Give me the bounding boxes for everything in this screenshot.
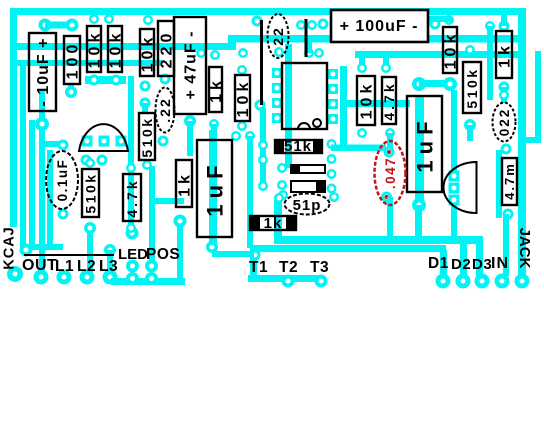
node R13 top pad (381, 56, 391, 73)
wire R11 bottom trace (177, 221, 183, 280)
svg-text:4.7k: 4.7k (124, 178, 140, 217)
transistor Q1 (444, 162, 477, 213)
label T3 (310, 259, 329, 276)
wire C1 negative trace (39, 90, 45, 277)
wire bottom bus lower (250, 245, 446, 252)
svg-text:51p: 51p (293, 197, 322, 214)
wire horizontal bus A (17, 43, 236, 50)
capacitor C2 47uF (174, 17, 206, 114)
node L2 pad (80, 270, 95, 285)
node C6 bottom pad (412, 198, 426, 212)
wire C8 bottom stub (387, 197, 393, 238)
wire top right jog (423, 16, 452, 22)
wire link col trace (260, 108, 266, 188)
diode D2 (291, 181, 325, 192)
node C8 top pad (384, 147, 395, 158)
node pad 263,160 (258, 155, 268, 165)
label OUT line (24, 254, 114, 256)
node pad 263,145 (258, 140, 268, 150)
node pad 423,19 (418, 14, 428, 24)
node link bottom pad (255, 100, 266, 111)
resistor R17 4.7m (502, 158, 517, 205)
node pad 257,21 (252, 16, 263, 27)
wire right edge trace (535, 51, 541, 143)
label JACK left (2, 226, 18, 269)
wire R1-R2 bottom link (85, 76, 126, 84)
svg-text:510k: 510k (139, 116, 155, 157)
svg-text:1k: 1k (497, 42, 514, 68)
wire-link J1 (260, 20, 263, 105)
wire C4 inner trace (209, 124, 217, 245)
svg-text:10k: 10k (140, 34, 157, 73)
svg-text:L2: L2 (77, 258, 96, 275)
resistor R15 510k (463, 62, 481, 113)
node R12 bottom pad (357, 128, 367, 138)
wire C5 bottom stub (30, 244, 63, 250)
capacitor C5 0.1uF (46, 151, 78, 209)
svg-text:1uF: 1uF (412, 115, 437, 172)
node E2 bottom pad (196, 47, 284, 60)
wire 0.1uF top stub (45, 141, 63, 147)
node C2 bottom pad (184, 115, 196, 127)
svg-text:L1: L1 (55, 258, 74, 275)
resistor R9 510k (82, 169, 99, 217)
node R4 top pad (143, 15, 153, 25)
label IN (491, 255, 509, 272)
svg-text:4.7m: 4.7m (502, 162, 517, 200)
node diode right pads (327, 169, 340, 202)
node diode pads left (277, 163, 288, 200)
diode D1 (291, 165, 325, 173)
wire mid horizontal E (347, 100, 410, 107)
node LED pos pads (126, 260, 158, 286)
node C5 bottom pad (58, 209, 69, 220)
wire LED-L3 link (111, 278, 185, 285)
svg-text:100: 100 (65, 41, 82, 80)
svg-text:10k: 10k (443, 31, 460, 70)
svg-text:510k: 510k (82, 172, 98, 213)
wire C7 left trace (496, 150, 502, 218)
resistor R1 10k (87, 26, 104, 72)
node IN pad (495, 274, 510, 289)
wire IC left vertical (285, 44, 292, 168)
wire D3 stub (476, 242, 483, 276)
svg-text:LED: LED (118, 246, 148, 263)
capacitor C9 100uF (331, 10, 428, 42)
node R7 bottom pad (237, 121, 247, 131)
capacitor C4 1uF (197, 140, 232, 237)
node L3 pad (103, 270, 118, 285)
node R4 bottom pad b (140, 98, 151, 109)
resistor R4 10k (140, 29, 157, 76)
label D3 (472, 256, 492, 273)
wire bottom bus lower left stub (250, 250, 257, 280)
capacitor E1 .22 (156, 88, 175, 133)
node R10 top pad (126, 163, 136, 173)
svg-text:10k: 10k (108, 30, 125, 69)
wire R7 down trace (247, 136, 253, 248)
wire R16-E4 stub (501, 87, 507, 103)
wire left border trace (10, 8, 17, 227)
resistor R11 1k (176, 160, 194, 207)
wire POS-R11 branch (152, 198, 184, 204)
svg-text:51k: 51k (284, 138, 312, 155)
node D3 pad (475, 274, 490, 289)
node T2 pad (282, 275, 295, 288)
wire right edge link (522, 137, 541, 143)
label D1 (428, 255, 449, 272)
svg-text:T1: T1 (249, 259, 268, 276)
node C7 bottom pad (503, 209, 514, 220)
node L1 pad (57, 270, 72, 285)
svg-text:10k: 10k (359, 81, 376, 120)
node V1 bottom pad (20, 244, 33, 257)
node R11 bottom pad (174, 215, 187, 228)
node E4 top pad (499, 90, 509, 100)
node OUT jack pad (7, 266, 23, 282)
capacitor E5 51p (285, 194, 330, 215)
svg-text:KCAJ: KCAJ (2, 226, 18, 269)
node C7 top pad (501, 144, 512, 155)
node R10 bottom pad (126, 223, 136, 233)
node LED lower pads (81, 155, 108, 166)
node C9 left pad (318, 19, 329, 30)
label L1 (55, 258, 74, 275)
wire D2 stub (460, 242, 467, 276)
svg-text:T3: T3 (310, 259, 329, 276)
resistor R8 510k (139, 113, 155, 160)
node R8 bottom pad (142, 160, 152, 170)
op-amp U1 IC (282, 63, 327, 129)
svg-text:0.1uF: 0.1uF (55, 159, 70, 202)
node R12 top pad (357, 56, 367, 73)
node R2 bottom pad (111, 75, 122, 86)
capacitor C1 10uF (29, 33, 56, 111)
node pad 263,186 (258, 181, 268, 191)
node R9 bottom pad (84, 222, 96, 234)
svg-text:4.7k: 4.7k (381, 81, 397, 120)
node OUT pad (34, 270, 49, 285)
wire Q1 top stub (451, 90, 457, 172)
resistor R16 1k (496, 31, 514, 78)
node LED col pad (126, 227, 139, 240)
wire D1 stub (440, 250, 447, 276)
label D2 (451, 256, 471, 273)
node pad 110,250 (104, 244, 116, 256)
node R1 bottom pad (89, 75, 100, 86)
node pad 236,136 (231, 131, 241, 141)
wire R15 bottom stub (467, 125, 473, 141)
svg-text:JACK: JACK (516, 228, 533, 269)
resistor R6 1k (208, 67, 225, 112)
capacitor E4 022 (493, 103, 516, 142)
label JACK right (516, 228, 533, 269)
node D2 pad (456, 274, 471, 289)
node IC stub pads (304, 48, 324, 58)
svg-text:- 10uF +: - 10uF + (35, 38, 52, 107)
label POS (146, 246, 180, 263)
node C8 bottom pad (381, 192, 392, 203)
resistor RB 1k (250, 215, 296, 232)
node R15 top pad (465, 45, 475, 55)
wire horizontal bus C (17, 60, 162, 66)
node right jack pad (515, 274, 530, 289)
node R15 bottom pad (464, 119, 476, 131)
wire C8 top stub (387, 133, 393, 150)
svg-text:D3: D3 (472, 256, 492, 273)
label L2 (77, 258, 96, 275)
node Q1 pads (449, 171, 460, 206)
node D1 pad (436, 274, 451, 289)
wire T row bar (248, 275, 323, 282)
node R16 bottom pad (499, 82, 510, 93)
resistor R12 10k (357, 76, 376, 125)
node T3 pad (315, 275, 328, 288)
wire IC stub up (306, 42, 312, 53)
node C5 top pad (58, 140, 69, 151)
node R16 top pad (499, 15, 510, 32)
label OUT (22, 257, 57, 274)
svg-text:22: 22 (270, 26, 286, 46)
svg-text:022: 022 (497, 108, 512, 137)
wire C6 bottom stub (415, 205, 422, 238)
LED D4 (79, 124, 128, 151)
node R14 bottom pads pair (412, 77, 457, 91)
svg-text:L3: L3 (99, 258, 118, 275)
svg-text:510k: 510k (464, 67, 480, 108)
node C4 bottom pad (206, 241, 218, 253)
resistor R13 4.7k (381, 77, 397, 124)
wire left vertical V4 (47, 150, 53, 250)
node IC left pads (272, 68, 282, 123)
svg-text:D1: D1 (428, 255, 449, 272)
svg-text:+ 100uF -: + 100uF - (340, 18, 419, 35)
wire R8 top stub (142, 103, 148, 113)
svg-text:.22: .22 (157, 97, 173, 122)
wire C2-R11 stub (187, 121, 193, 156)
label LED (118, 246, 148, 263)
svg-text:1k: 1k (208, 77, 225, 103)
node C9 right pad (430, 19, 441, 30)
wire right vertical V8 (487, 26, 493, 100)
svg-text:1k: 1k (177, 171, 194, 197)
resistor R10 4.7k (123, 174, 141, 221)
node C4 top pad (209, 119, 219, 129)
resistor R7 10k (235, 75, 252, 121)
resistor R2 10k (108, 26, 125, 72)
resistor 51k RA (275, 138, 322, 155)
node pad 449,20 (444, 15, 454, 25)
node R13 bottom pad (385, 128, 395, 138)
wire LED column trace (128, 76, 134, 233)
resistor R3 100 (64, 36, 82, 84)
resistor R5 220 (158, 21, 176, 76)
node R1 top pad (89, 14, 99, 24)
svg-text:1k: 1k (264, 215, 283, 232)
wire bus jog (228, 35, 236, 50)
wire bottom bus upper left stub (274, 200, 282, 240)
wire R3 bottom stub (68, 84, 74, 92)
node link pad b (307, 20, 317, 30)
svg-text:+ 47uF -: + 47uF - (183, 31, 200, 100)
svg-text:IN: IN (491, 255, 509, 272)
wire node pads top-left pair (39, 19, 79, 32)
wire bottom bus upper (274, 236, 483, 244)
wire C6 inner trace (415, 97, 424, 202)
node LED pads (82, 136, 127, 147)
capacitor E2 22 (268, 14, 289, 58)
wire C4-T1 link (212, 251, 254, 257)
node pad 490,26 (485, 21, 495, 31)
resistor R14 10k (443, 27, 460, 73)
node R2 top pad (104, 14, 114, 24)
node link pad a (296, 20, 306, 30)
capacitor C6 1uF (407, 96, 442, 192)
node R4 bottom pad a (140, 81, 151, 92)
wire C7 down trace (503, 214, 509, 276)
svg-text:T2: T2 (279, 259, 298, 276)
node E1 bottom pad (158, 136, 169, 147)
node R9 top pad (85, 158, 95, 168)
node R7 top pad (237, 48, 248, 75)
wire R9 bottom trace (87, 228, 93, 272)
wire left vertical V2 (29, 120, 35, 245)
svg-text:.047: .047 (383, 157, 398, 189)
wire IC right vertical (340, 66, 347, 150)
wire right border trace (518, 8, 526, 278)
wire Q1 bottom stub (451, 205, 457, 238)
wire POS column trace (149, 166, 155, 266)
svg-text:D2: D2 (451, 256, 471, 273)
svg-text:10k: 10k (87, 30, 104, 69)
node T1 pad (250, 250, 261, 261)
wire horizontal bus B under C9 (232, 35, 520, 43)
wire horizontal bus D right (355, 51, 518, 58)
node 51p stub pad (274, 193, 284, 203)
node R12-51k link (331, 145, 386, 152)
wire top border trace (10, 8, 526, 15)
label T1 (249, 259, 268, 276)
svg-text:OUT: OUT (22, 257, 57, 274)
svg-text:POS: POS (146, 246, 180, 263)
node pad 250,136 (245, 131, 255, 141)
label L3 (99, 258, 118, 275)
svg-text:1uF: 1uF (202, 159, 227, 216)
node 51k right pads (327, 139, 337, 164)
wire left vertical V1 (20, 64, 26, 247)
svg-text:10k: 10k (235, 79, 252, 118)
node E1 top pad (160, 74, 171, 85)
node C1 bottom pad (35, 117, 49, 131)
wire pad110 stub (107, 250, 113, 272)
node R3 bottom pad (65, 86, 77, 98)
node IC right pads (328, 69, 338, 124)
capacitor C8 .047 red (375, 141, 406, 205)
wire-link J2 (305, 19, 308, 57)
label T2 (279, 259, 298, 276)
